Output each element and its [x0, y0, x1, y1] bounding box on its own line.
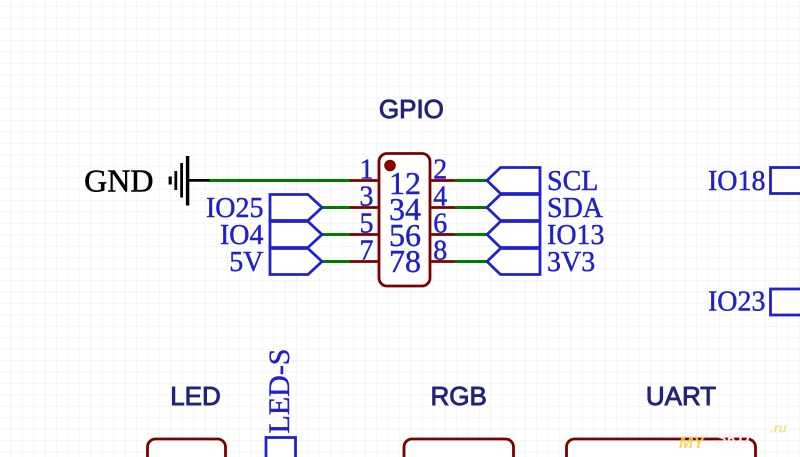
svg-text:UART: UART	[646, 381, 716, 411]
svg-text:7: 7	[360, 236, 374, 267]
svg-text:5V: 5V	[229, 247, 263, 278]
svg-text:.ru: .ru	[770, 421, 787, 436]
svg-text:LED-S: LED-S	[263, 349, 296, 434]
svg-text:8: 8	[433, 236, 447, 267]
svg-text:LED: LED	[170, 381, 221, 411]
svg-text:GPIO: GPIO	[379, 94, 444, 124]
svg-text:IO23: IO23	[708, 287, 766, 318]
svg-text:SKU: SKU	[716, 431, 750, 448]
svg-text:MY: MY	[679, 433, 706, 452]
svg-text:GND: GND	[84, 163, 153, 199]
svg-text:IO18: IO18	[708, 166, 766, 197]
svg-text:3V3: 3V3	[547, 247, 595, 278]
svg-text:78: 78	[389, 243, 421, 279]
svg-text:RGB: RGB	[431, 381, 487, 411]
